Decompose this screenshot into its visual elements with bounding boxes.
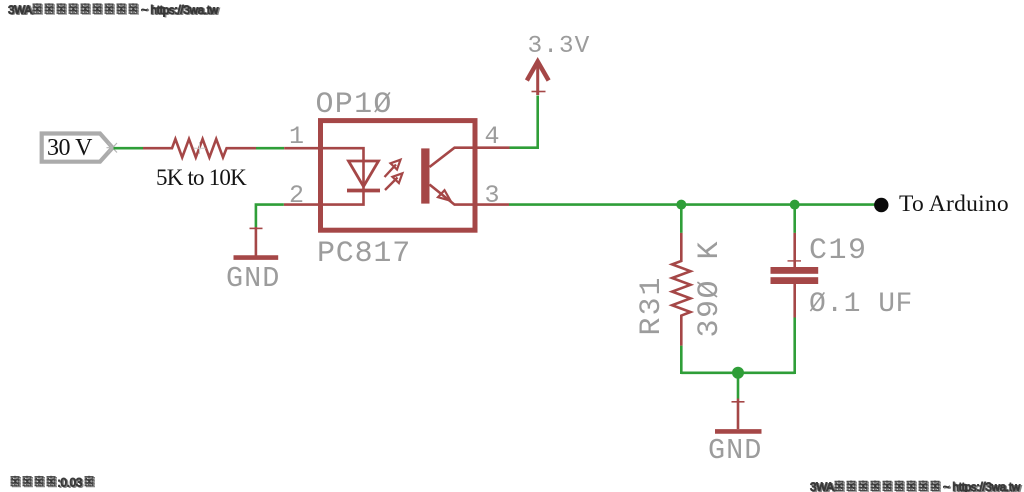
wire from 3.3V down to pin 4 corner [510,96,538,148]
phototransistor [421,148,472,205]
resistor R31 [635,233,727,346]
optocoupler OP10 PC817 body [289,88,500,271]
LED inside optocoupler [323,148,380,204]
capacitor C19 [771,233,913,320]
watermark bottom-left load time [11,476,96,491]
wire R31 bottom [680,346,683,374]
connector 30V flag [42,134,119,162]
junction at R31 top [676,200,686,210]
supply 3.3V symbol [528,62,548,96]
ground GND left [226,227,280,295]
svg-text:Ø.1 UF: Ø.1 UF [809,289,913,320]
svg-text:To Arduino: To Arduino [899,191,1009,217]
pin 1 lead [284,147,320,150]
wire resistor to pin 1 [256,147,284,150]
watermark bottom-right [810,480,1022,492]
light arrows [385,160,403,190]
junction at bottom [732,367,744,379]
pin 4 lead [475,146,510,149]
wire down to R31 [680,205,683,233]
svg-text:PC817: PC817 [317,237,411,271]
watermark top-left [8,3,220,18]
svg-text:GND: GND [226,262,280,295]
svg-text:39Ø K: 39Ø K [693,240,727,338]
pin 2 lead [284,203,320,206]
wire down to ground [737,373,740,399]
svg-text:GND: GND [708,434,762,467]
svg-text:C19: C19 [809,234,868,268]
svg-text:3.3V: 3.3V [528,33,591,60]
bottom wire joining R31 and C19 [681,371,794,374]
wire pin 3 to output node [509,203,881,206]
node To Arduino [874,198,888,212]
wire C19 bottom [793,318,796,375]
pin 3 lead [475,203,509,206]
svg-text:OP1Ø: OP1Ø [316,88,393,122]
svg-text:5K to 10K: 5K to 10K [156,165,247,190]
wire flag to resistor [114,147,144,150]
svg-text:30 V: 30 V [47,135,93,161]
junction at C19 top [790,200,800,210]
svg-text:1: 1 [289,122,304,151]
ground GND bottom [708,399,762,468]
wire down to C19 [793,205,796,233]
svg-text:2: 2 [289,181,304,210]
resistor 5K to 10K (input series resistor) [143,139,256,157]
wire pin 2 to ground corner [256,205,284,227]
svg-text:R31: R31 [635,275,669,335]
